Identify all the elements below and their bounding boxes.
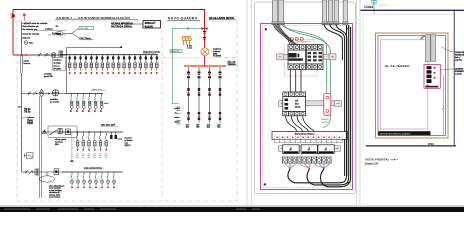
main fuse box: [59, 51, 63, 59]
tier1 breaker drop 15: [145, 55, 148, 71]
tier1 breaker drop 13: [134, 55, 137, 71]
colored circuit wires fanning out: [285, 163, 330, 170]
phase tap slanted note: [22, 117, 27, 119]
DIN rail row2: [279, 100, 342, 106]
tier4 bus: [62, 171, 123, 173]
status bar text specks: [4, 209, 260, 210]
label box 4x6mm: [143, 21, 161, 29]
svg-text:c/ porta: c/ porta: [455, 73, 463, 76]
leader to quadro label: [440, 69, 454, 70]
tier2 transformer symbol: [40, 89, 44, 96]
svg-text:Barramento trifasico: Barramento trifasico: [295, 133, 315, 136]
tier2 circuit drop 2: [76, 94, 79, 111]
dimension line: [442, 75, 444, 135]
breaker tick marks with red arrows: [203, 32, 206, 35]
breaker group row1 left: [288, 45, 306, 70]
tier3 bus: [75, 131, 123, 133]
leader to caixa label: [441, 47, 454, 52]
pink wire loop around row1 devices: [285, 44, 318, 76]
novo quadro circuit drop 3: [208, 64, 212, 122]
tier3 feeder wire: [41, 131, 75, 133]
riser wire from tap to tier2: [66, 48, 68, 94]
svg-text:CORES: CORES: [364, 5, 373, 9]
bottom terminal row: [282, 157, 331, 163]
tier1 breaker drop 3: [79, 55, 82, 71]
mounting dots: [265, 28, 267, 30]
ground wire green loop: [172, 27, 205, 29]
tier3 short spare drops: [110, 132, 112, 139]
tier3 fuse: [58, 129, 62, 134]
tier2 junction: [48, 93, 50, 95]
tier1 breaker drop 8: [107, 55, 110, 71]
service entrance symbol (red): [11, 14, 15, 18]
svg-text:AS BUILT — AJUSTANDO NORMALI: AS BUILT — AJUSTANDO NORMALIZAÇÃO: [56, 15, 131, 20]
tier2 circuit drop 6: [100, 94, 103, 111]
svg-text:a phase: a phase: [27, 117, 35, 119]
panel magenta border: [261, 24, 353, 190]
novo quadro red distribution bus: [184, 65, 226, 67]
riser wire to tier2: [21, 73, 23, 94]
tier1 breaker drop 12: [128, 55, 131, 71]
tier3 feeder drop 6: [105, 132, 108, 149]
tier1 distribution bus: [60, 54, 158, 56]
row3 breaker group 1: [283, 145, 299, 154]
svg-text:30mA: 30mA: [295, 105, 301, 108]
main switch device row2: [283, 92, 306, 116]
CORES red guide line: [364, 4, 390, 6]
tier4 lighting drop 4: [88, 172, 91, 186]
tier3 feeder drop 2: [82, 132, 85, 149]
conduit elbow: [421, 36, 425, 40]
brown inner frame: [378, 36, 446, 136]
svg-text:4x16A: 4x16A: [145, 24, 154, 28]
tier2 feeder wire: [22, 93, 67, 95]
row1 right fuse windows: [308, 52, 323, 61]
incoming gray cable: [276, 24, 291, 40]
tier2 circuit drop 4: [88, 94, 91, 111]
wall datum right line: [453, 10, 455, 146]
double riser wires: [39, 96, 42, 198]
tier1 breaker drop 17: [156, 55, 159, 71]
tier3 feeder drop 3: [88, 132, 91, 149]
surface panel box (side view): [424, 65, 440, 89]
svg-text:geral 220: geral 220: [44, 76, 54, 78]
svg-text:QD-AE-LAVAN. SETOR: QD-AE-LAVAN. SETOR: [209, 17, 234, 20]
tier1 breaker drop 2: [74, 55, 77, 71]
dark red terminal marks: [291, 38, 294, 40]
svg-text:63A: 63A: [295, 102, 299, 105]
tier3 feeder drop 5: [99, 132, 102, 149]
neutral block (red outline): [324, 94, 331, 116]
red feeder drop in novo quadro: [204, 29, 206, 48]
tier4 lighting drop 6: [100, 172, 103, 186]
tier4 lighting drop 7: [106, 172, 109, 186]
black name strip: [378, 131, 430, 135]
svg-text:De entrada ger.: De entrada ger.: [23, 28, 38, 31]
floor line: [366, 145, 456, 147]
green terminal dot: [427, 84, 429, 86]
CORES symbol (teal): [372, 0, 376, 14]
tier1 breaker drop 10: [117, 55, 120, 71]
tier4 lighting drop 1: [70, 172, 73, 186]
top-left conduit 1: [272, 0, 278, 25]
wires row1 to row2: [290, 70, 301, 93]
status bar light line: [0, 205, 464, 207]
green earth wire arc A: [281, 24, 327, 93]
svg-text:de: de: [175, 113, 177, 115]
red junction arrows: [202, 27, 205, 29]
CT metering coils (orange): [182, 37, 191, 41]
svg-text:QDF-2: QDF-2: [125, 145, 132, 147]
tier3 device enclosure box: [48, 126, 77, 137]
black cables right conduits to bundle: [324, 24, 347, 176]
main disconnect slashes: [38, 53, 48, 57]
tier4 fuse: [35, 169, 39, 175]
novo quadro circuit drop 2: [197, 64, 201, 122]
svg-text:pr. onorio: pr. onorio: [50, 102, 60, 104]
wires row2 to barramento: [286, 116, 314, 132]
tier4 disconnect slash: [25, 170, 33, 174]
barramento terminal strip: [272, 132, 348, 143]
tier1 feeder red segment with taps: [13, 54, 29, 56]
svg-text:10mm: 10mm: [175, 122, 181, 124]
tier4 lighting drop 2: [76, 172, 79, 186]
svg-text:area c.: area c.: [53, 66, 60, 68]
svg-text:QL-AE-TÉRREO: QL-AE-TÉRREO: [385, 63, 410, 68]
outgoing cable sweep 2: [307, 25, 349, 185]
tier3 pilot lamp: [66, 129, 71, 135]
svg-text:espelho: espelho: [455, 60, 463, 62]
outgoing cable sweep 3: [321, 27, 351, 187]
row1 left switch levers: [289, 53, 303, 61]
svg-text:TM20: TM20: [27, 123, 34, 125]
kWh meter (orange): [201, 48, 209, 56]
svg-text:area comum: area comum: [49, 197, 60, 199]
green cable label box: [79, 27, 94, 30]
svg-text:65A: 65A: [55, 143, 59, 146]
svg-text:TM 0x: TM 0x: [24, 109, 31, 111]
novo quadro circuit drop 1: [187, 64, 191, 122]
ground bar green box: [170, 50, 182, 53]
antenna tap line with arrow: [67, 47, 122, 49]
note row tick marks: [22, 24, 24, 38]
svg-text:─(∅)ø25 cabo de entrada: ─(∅)ø25 cabo de entrada: [22, 22, 49, 25]
tier4 lighting drop 8: [112, 172, 115, 186]
sheet edge line between middle and right sheets: [357, 0, 361, 205]
svg-text:medicao: medicao: [53, 59, 62, 61]
tier3 switch blade: [50, 130, 57, 135]
tier4 lighting drop 3: [82, 172, 85, 186]
novo quadro circuit drop 4: [218, 64, 222, 122]
meter annotation box: [53, 58, 66, 71]
door leaf (magenta): [381, 40, 428, 129]
leader wire to label box: [130, 23, 143, 25]
main drop wire from pole: [21, 22, 23, 56]
leader lines to phase labels: [36, 30, 66, 35]
red wire marks: [434, 67, 436, 79]
svg-text:NOVO QUADRO: NOVO QUADRO: [168, 17, 198, 21]
status bar: [0, 207, 464, 212]
svg-text:MONTE DA PORTA DO QUADRO: MONTE DA PORTA DO QUADRO: [380, 132, 411, 135]
left sheet dash-dot drawing frame: [17, 21, 237, 201]
svg-text:energia: energia: [53, 62, 61, 64]
svg-text:TM 3x: TM 3x: [24, 112, 31, 114]
kWh meter circle: [51, 53, 56, 58]
utility pole / grounding rod symbol (red): [23, 14, 26, 21]
breaker group row1 right: [307, 45, 324, 70]
tier3 delta symbol: [43, 130, 47, 133]
tier3 reserve red mark: [118, 138, 123, 140]
double drop wire below entrance: [20, 55, 22, 73]
tier2 circuit drop 1: [70, 94, 73, 111]
svg-text:B1W: B1W: [57, 33, 62, 35]
svg-text:ramal de entrada: ramal de entrada: [23, 32, 40, 35]
brown outer frame: [376, 33, 448, 138]
breakers in side view: [427, 66, 432, 83]
green riser wire: [172, 28, 179, 104]
top-left conduit 2: [278, 0, 284, 25]
tier1 breaker drop 14: [139, 55, 142, 71]
wall face rect: [363, 15, 454, 146]
tier1 breaker drop 7: [101, 55, 104, 71]
tier1 breaker drop 6: [96, 55, 99, 71]
DIN rail row1: [277, 54, 337, 60]
svg-text:Fase+Neutro qd.: Fase+Neutro qd.: [23, 25, 40, 28]
top datum line: [361, 9, 464, 11]
tier1 breaker drop 9: [112, 55, 115, 71]
tier1 breaker drop 5: [90, 55, 93, 71]
green earth wire arc B: [283, 24, 330, 128]
tier3 feeder drop 1: [76, 132, 79, 149]
tier1 breaker drop 1: [68, 55, 71, 71]
incoming cables from left conduits: [274, 24, 298, 45]
tier2 circuit drop 3: [82, 94, 85, 111]
riser to tier3: [21, 94, 23, 173]
svg-text:ap.: ap.: [56, 26, 59, 28]
vertical conduits in view: [425, 35, 436, 62]
tier3 feeder drop 4: [94, 132, 97, 149]
svg-text:VISTA FRONTAL —A—: VISTA FRONTAL —A—: [365, 158, 398, 162]
svg-text:aliment.: aliment.: [23, 37, 31, 40]
svg-text:interno: interno: [24, 62, 32, 65]
grounding tap symbol: [18, 107, 22, 108]
cable spec callout fork: [56, 28, 79, 38]
tier2 circuit drop 5: [94, 94, 97, 111]
earth electrode column: [177, 107, 181, 124]
pink control wires above row1: [293, 40, 314, 44]
svg-text:TERRA: TERRA: [321, 121, 329, 124]
emergency transfer symbol above tier4: [24, 153, 33, 158]
red wire to bus: [204, 56, 206, 66]
tier2 spare tap red mark: [104, 102, 109, 104]
svg-text:Escala 1:20: Escala 1:20: [365, 163, 379, 166]
row2 device face marks: [285, 99, 289, 110]
tier4 lighting drop 5: [94, 172, 97, 186]
tick on green bus: [187, 27, 189, 30]
svg-text:3F 220V: 3F 220V: [53, 69, 61, 71]
DIN rail row3: [279, 146, 341, 152]
row3 breaker group 2: [301, 145, 317, 154]
outgoing cable sweep 1: [288, 25, 347, 183]
panel base bar: [425, 86, 438, 88]
svg-text:c/ sec: c/ sec: [187, 48, 192, 50]
svg-text:BARRA: BARRA: [321, 118, 329, 121]
tier2 disconnect slashes: [28, 92, 36, 96]
svg-text:TA 200/5: TA 200/5: [213, 55, 222, 58]
tier1 breaker drop 4: [85, 55, 88, 71]
row3 breaker group 3: [318, 145, 334, 154]
tier4 pilot lamp box: [54, 169, 59, 175]
panel tan dashed inner border: [263, 26, 351, 188]
svg-text:PE 750V: PE 750V: [80, 28, 89, 30]
tier1 feeder black segment: [29, 54, 67, 56]
red service feeder: top border wire: [13, 10, 205, 56]
top-right conduits: [322, 0, 327, 25]
svg-text:DR: DR: [295, 101, 299, 103]
sheet edge line between left and middle sheets: [247, 0, 252, 205]
tier2 bus: [67, 93, 104, 95]
tier1 breaker drop 11: [123, 55, 126, 71]
tier3 spare dashed drop: [71, 133, 73, 160]
incoming CT coil symbol: [21, 39, 28, 45]
tier4 feeder wire: [22, 171, 63, 173]
svg-text:TM30: TM30: [27, 121, 34, 123]
panel enclosure outer box: [255, 2, 356, 194]
tier4 generator ellipse: [40, 176, 55, 182]
tier2 meter circle: [52, 90, 58, 96]
svg-text:AR.TEADA GERAL: AR.TEADA GERAL: [111, 25, 133, 28]
tier1 breaker drop 16: [150, 55, 153, 71]
